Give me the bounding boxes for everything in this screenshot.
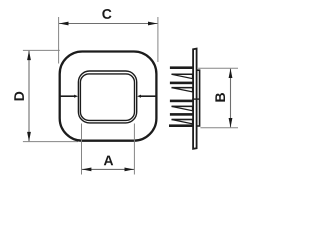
fin wedge 4 bbox=[172, 120, 193, 124]
inner opening outer line bbox=[78, 71, 136, 123]
arrow B top bbox=[229, 69, 233, 79]
fin bar 4 bbox=[170, 113, 193, 116]
arrow B bottom bbox=[229, 118, 233, 128]
fin bar 3 bbox=[170, 100, 193, 103]
fin bar 5 bbox=[169, 124, 193, 127]
side view flange bbox=[193, 49, 197, 149]
dimension line C bbox=[59, 23, 158, 25]
extension line C right bbox=[157, 17, 159, 62]
fin wedge 2 bbox=[172, 88, 193, 92]
extension line B bottom bbox=[200, 127, 238, 129]
fin wedge 3 bbox=[172, 106, 193, 110]
centerline arrow left bbox=[74, 95, 78, 98]
dimension line D bbox=[28, 51, 30, 141]
extension line B top bbox=[198, 67, 238, 69]
label A bbox=[104, 156, 113, 166]
label C bbox=[102, 9, 111, 19]
centerline left bbox=[60, 95, 74, 97]
side view mid junction bbox=[192, 98, 200, 100]
fin wedge 1 bbox=[172, 74, 193, 78]
centerline arrow right bbox=[137, 95, 141, 98]
fin bar 2 bbox=[170, 82, 193, 85]
label D bbox=[14, 92, 24, 101]
arrow C left bbox=[59, 22, 69, 26]
fin bar 1 bbox=[170, 66, 193, 69]
inner opening inner line bbox=[80, 74, 134, 121]
arrow D bottom bbox=[27, 132, 31, 142]
extension line A left bbox=[81, 124, 83, 175]
arrow A right bbox=[125, 168, 135, 172]
extension line D top bbox=[23, 49, 60, 51]
label B bbox=[215, 93, 225, 102]
arrow D top bbox=[27, 51, 31, 61]
extension line D bottom bbox=[23, 141, 78, 143]
outer body rounded square bbox=[60, 52, 157, 141]
dimension line A bbox=[82, 168, 134, 170]
dimension line B bbox=[230, 69, 232, 128]
centerline right bbox=[141, 95, 156, 97]
extension line C left bbox=[58, 17, 60, 64]
arrow C right bbox=[148, 22, 158, 26]
extension line A right bbox=[133, 124, 135, 175]
side view boss line bbox=[197, 70, 199, 126]
arrow A left bbox=[82, 168, 92, 172]
